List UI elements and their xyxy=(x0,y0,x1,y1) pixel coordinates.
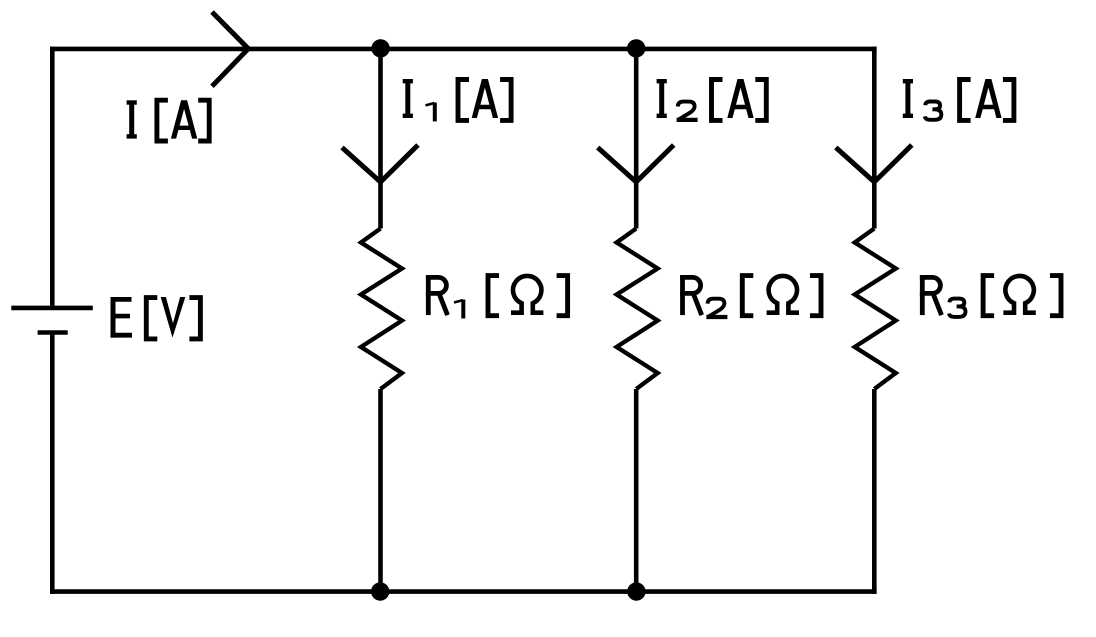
label I[A] total current xyxy=(127,100,210,141)
wire branch 1 upper xyxy=(378,47,383,229)
label R2[ohm] xyxy=(680,275,821,317)
wire left vertical lower (from battery -) xyxy=(50,333,55,594)
label I2[A] branch 2 current xyxy=(657,79,767,120)
label R3[ohm] xyxy=(920,275,1061,317)
label I3[A] branch 3 current xyxy=(903,79,1014,120)
label R1[ohm] xyxy=(426,275,568,319)
resistor R1 zigzag xyxy=(361,229,402,390)
arrow I current direction (right) xyxy=(212,12,248,86)
wire top horizontal xyxy=(50,47,877,52)
junction node bottom branch 1 xyxy=(371,582,389,600)
wire branch 2 lower xyxy=(634,389,639,594)
wire bottom horizontal xyxy=(50,589,877,594)
resistor R2 zigzag xyxy=(617,229,658,390)
wire branch 2 upper xyxy=(634,47,639,229)
arrow I2 current direction (down) xyxy=(598,145,674,182)
junction node top branch 1 xyxy=(371,39,389,57)
arrow I1 current direction (down) xyxy=(342,145,418,182)
wire left vertical upper (to battery +) xyxy=(50,47,55,306)
battery E negative plate (short) xyxy=(38,330,68,335)
resistor R3 zigzag xyxy=(855,229,896,390)
battery E positive plate (long) xyxy=(11,306,93,311)
arrow I3 current direction (down) xyxy=(836,145,912,182)
label E[V] battery voltage xyxy=(111,297,201,339)
wire branch 3 upper (right side) xyxy=(872,47,877,229)
junction node top branch 2 xyxy=(627,39,645,57)
junction node bottom branch 2 xyxy=(627,582,645,600)
wire branch 3 lower (right side) xyxy=(872,389,877,594)
label I1[A] branch 1 current xyxy=(403,79,511,121)
wire branch 1 lower xyxy=(378,389,383,594)
